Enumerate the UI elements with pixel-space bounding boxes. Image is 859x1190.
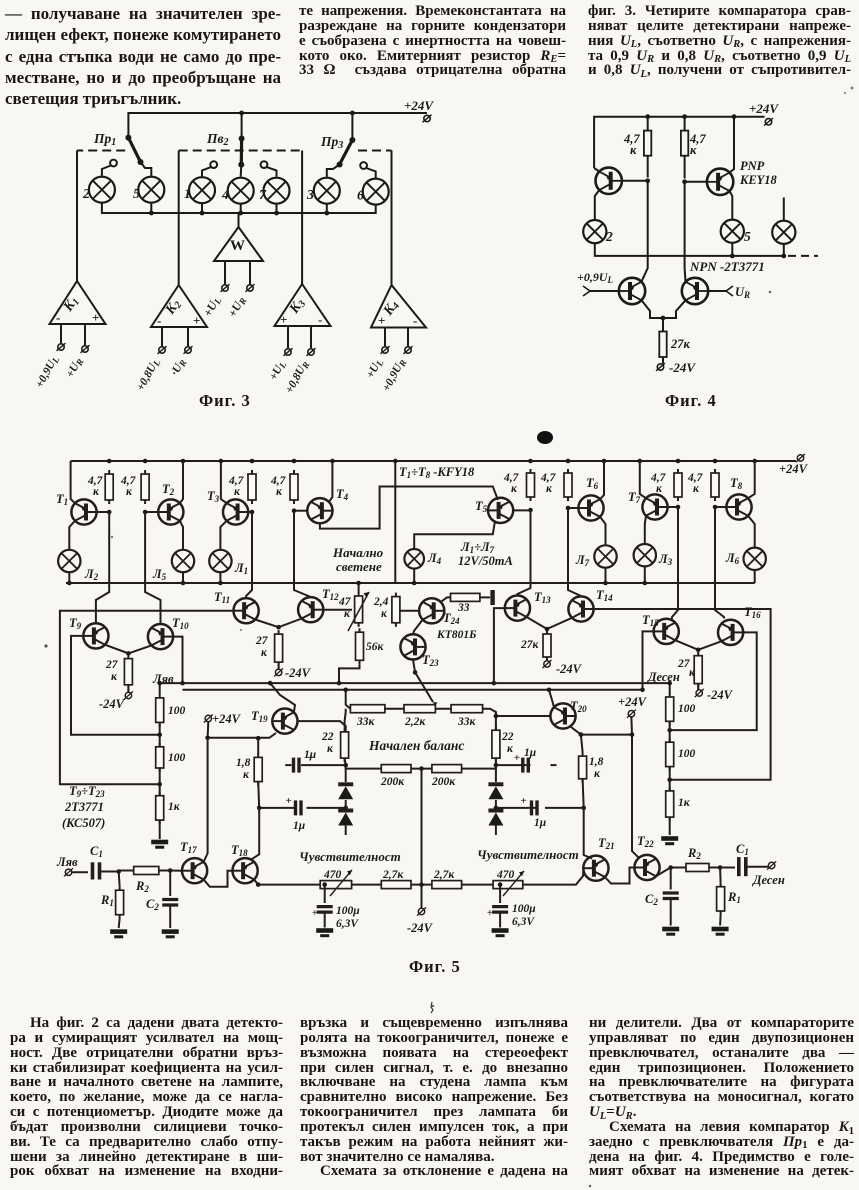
- T2 base wire: [145, 511, 158, 513]
- top column 1 (large lead text): [5, 3, 281, 109]
- node lamp3/bus: [324, 211, 329, 216]
- transistor T5: [488, 498, 513, 523]
- switch Pr3: [327, 137, 356, 177]
- lamp bottom bus: [102, 203, 376, 213]
- terminal +0,9UL of K1: [57, 343, 66, 351]
- resistor 100 right b: [666, 738, 674, 770]
- T3 base wire: [248, 511, 252, 513]
- resistor 4,7k (R of T7): [674, 469, 682, 501]
- node: rail junction to Pr3: [350, 111, 355, 116]
- transistor NPN left: [583, 278, 645, 304]
- wire to -24V: [127, 685, 129, 692]
- wire +24V down: [630, 717, 633, 734]
- emitter join wires: [642, 300, 686, 318]
- +24V terminal: [764, 118, 773, 126]
- lamp 5: [138, 177, 164, 203]
- comparator K4: [371, 285, 426, 346]
- wire R8 column to T16: [715, 507, 724, 619]
- transistor NPN right: [682, 278, 750, 304]
- T24 emitter to T23: [413, 620, 423, 635]
- lamp L6: [744, 548, 766, 570]
- pot 470 left wiper: [330, 870, 352, 896]
- wire lamp1 to bus: [201, 203, 203, 213]
- wire to ground: [669, 817, 671, 835]
- pot 47k arrow: [348, 592, 369, 631]
- NO contact above lamp 6: [360, 162, 376, 179]
- dashed select line group 2: [179, 150, 302, 152]
- wire right 200k: [462, 765, 496, 769]
- resistor 4,7k left: [623, 117, 651, 178]
- ground 100u right: [492, 928, 509, 937]
- -24V terminal: [543, 660, 552, 668]
- lamp 5: [721, 220, 744, 243]
- node lamp5/bus: [149, 211, 154, 216]
- wire 1,8k bottom: [258, 782, 259, 808]
- resistor 1k left: [156, 792, 164, 824]
- lamp 2: [89, 177, 115, 203]
- resistor 1k right: [666, 787, 674, 821]
- pot 47k: [355, 592, 363, 627]
- resistor R1 input: [116, 886, 124, 919]
- lamp L7: [594, 545, 616, 567]
- T3 collector wire: [220, 521, 226, 550]
- wire stub above right lamp: [783, 198, 785, 221]
- node emitter join: [661, 316, 666, 321]
- T1 emitter wire: [71, 461, 75, 503]
- wire R1 column to NPN left collector: [642, 181, 648, 282]
- resistor 22k right: [492, 726, 500, 762]
- wire 1,8k top: [581, 735, 583, 753]
- resistor R2 input: [134, 867, 159, 875]
- lamp L4: [404, 549, 424, 569]
- resistor 33k right: [451, 705, 483, 713]
- T7 base wire: [668, 506, 678, 508]
- wire 22k left bottom: [345, 758, 346, 765]
- lamp 1: [189, 177, 215, 203]
- wire select line to K2: [178, 151, 180, 286]
- pot 470 right: [493, 881, 523, 889]
- wire 1,8k left top: [257, 738, 259, 754]
- terminal +UL of K3: [284, 348, 293, 356]
- T4 base wire: [294, 510, 307, 512]
- lamp 7: [264, 178, 290, 204]
- wire to -24V: [278, 662, 280, 669]
- capacitor C1 output: [720, 867, 735, 869]
- -24V terminal: [124, 691, 133, 699]
- +24V terminal: [796, 454, 805, 462]
- wire L6 to bus: [754, 570, 756, 583]
- T12 base wire: [323, 609, 352, 611]
- ground R1 output: [712, 927, 729, 936]
- wire 22k right bottom: [495, 758, 497, 765]
- capacitor C1 input: [93, 862, 100, 879]
- T18 emitter wire: [254, 880, 258, 885]
- wire R4 column to T12: [294, 511, 311, 597]
- wire 33k-2,2k: [385, 708, 404, 710]
- resistor 2,4k: [392, 593, 400, 627]
- lamp (right, unnumbered): [772, 221, 795, 244]
- resistor 100 left b: [156, 743, 164, 772]
- wire right balance column: [483, 709, 496, 731]
- wire +24V down: [207, 722, 210, 738]
- wire R2 out: [671, 867, 686, 869]
- lower bus dashed continuation: [788, 255, 818, 257]
- node lamp5/bus: [730, 254, 735, 259]
- resistor 27k (T15/T16): [694, 652, 702, 688]
- T8 emitter wire: [748, 461, 755, 498]
- resistor 1,8k left: [254, 753, 262, 785]
- ink blob: [537, 431, 553, 444]
- T10 base wire to left bus: [173, 637, 182, 684]
- T2 collector wire: [180, 521, 183, 550]
- wire R1 top: [118, 872, 121, 887]
- figure 3 schematic: [30, 95, 460, 415]
- wire select line to K1: [76, 151, 78, 282]
- resistor R2 output: [686, 864, 709, 872]
- T24 base wire: [400, 610, 419, 612]
- resistor 4,7k (R of T3): [248, 470, 256, 504]
- top column 2: [299, 4, 566, 78]
- wire T17 collector column: [204, 738, 208, 862]
- capacitor 1u left bottom: [307, 807, 346, 809]
- left divider node1: [157, 733, 162, 738]
- T16 base feedback wire: [670, 632, 757, 730]
- T5 base wire: [513, 509, 530, 511]
- terminal +0,8UL of K2: [158, 346, 167, 354]
- amplifier W: [214, 213, 263, 284]
- capacitor C2 output: [670, 868, 672, 890]
- node lamp7/bus: [274, 211, 279, 216]
- dashed select line group 1: [77, 151, 125, 282]
- transistor T19: [272, 709, 297, 734]
- signal bus B: [183, 689, 643, 691]
- terminal +UL of K4: [381, 346, 390, 354]
- wire T18 collector: [251, 808, 259, 860]
- T8 base wire: [715, 506, 726, 508]
- ground C2 output: [662, 927, 679, 936]
- transistor T10: [148, 624, 173, 649]
- resistor 4,7k (R of T2): [141, 470, 149, 504]
- wire R1 column to T9: [96, 512, 109, 623]
- resistor 200k right: [432, 765, 462, 773]
- wire lamp5 to bus: [731, 243, 733, 256]
- diode D3: [495, 765, 497, 782]
- transistor T9: [83, 623, 108, 648]
- node rail/R2: [682, 114, 687, 119]
- T6 collector wire: [600, 517, 606, 546]
- dashed select line group 3: [358, 150, 392, 152]
- wire R1 out ground: [719, 915, 722, 926]
- resistor 200k left: [381, 765, 411, 773]
- terminal +UR of W: [246, 284, 255, 292]
- wire left 200k: [346, 765, 382, 769]
- wire lamp3 to bus: [326, 204, 328, 213]
- T6 base wire: [568, 507, 578, 509]
- T11 base feedback wire: [60, 611, 234, 785]
- node right lamp/bus: [781, 254, 786, 259]
- wire 100u ground: [324, 912, 326, 927]
- wire 1,8k bottom: [583, 779, 584, 808]
- diode D4: [494, 806, 499, 811]
- resistor 27k (T9/T10): [124, 655, 132, 689]
- transistor T24: [419, 598, 444, 623]
- pot 2,2k wiper arrow: [433, 702, 438, 706]
- transistor T11: [234, 598, 259, 623]
- input terminal: [64, 868, 73, 876]
- wire R3 column to T11: [246, 512, 252, 598]
- figure 5 schematic: [30, 425, 840, 955]
- right divider top: [669, 683, 671, 694]
- diode D1: [345, 765, 347, 782]
- T13/T14 emitter join: [526, 617, 547, 629]
- diode D4 stub: [495, 826, 497, 836]
- wire R1 ground: [118, 919, 121, 928]
- wire R1 out top: [719, 868, 722, 883]
- wire node2 to T17: [170, 870, 182, 872]
- wire input to C1: [72, 871, 88, 873]
- transistor T20: [550, 703, 575, 728]
- transistor T21: [583, 856, 608, 881]
- T20 emitter wire: [549, 690, 554, 707]
- T2 emitter wire: [180, 461, 183, 503]
- bottom column 3: [589, 1016, 854, 1179]
- comparator K2: [151, 285, 207, 346]
- -24V terminal: [274, 668, 283, 676]
- resistor 4,7k (R of T8): [711, 469, 719, 501]
- capacitor 100u left: [324, 885, 326, 903]
- left divider node2: [157, 782, 162, 787]
- wire select line to K4: [391, 151, 393, 286]
- transistor PNP right (KEY18): [682, 117, 734, 220]
- wire L1 to bus: [219, 572, 221, 583]
- pot 470 left: [320, 881, 351, 889]
- ground R1: [110, 929, 127, 938]
- resistor 4,7k (R of T1): [105, 470, 113, 504]
- transistor T7: [642, 494, 667, 519]
- wire R6 column to T14: [568, 508, 581, 596]
- wire 100u ground: [499, 912, 501, 927]
- wire rail to Pr2 pivot: [241, 113, 243, 139]
- terminal +0,9UR of K4: [404, 346, 413, 354]
- terminal -UR of K2: [184, 346, 193, 354]
- terminal +0,8UR of K3: [307, 348, 316, 356]
- sensitivity bus: [258, 871, 583, 885]
- T11/T12 emitter join: [255, 620, 279, 628]
- pot 2,2k: [404, 705, 435, 713]
- wire R2 column to NPN right collector: [684, 182, 687, 282]
- signal bus A: [160, 682, 670, 684]
- wire to T19 collector: [208, 733, 276, 738]
- capacitor 100u right: [499, 885, 501, 903]
- wire C1 out to terminal: [746, 866, 768, 868]
- wire 56k bottom: [339, 664, 360, 683]
- wire L3 to bus: [644, 566, 646, 583]
- transistor T6: [578, 495, 603, 520]
- pot 470 right wiper: [503, 871, 524, 896]
- resistor 1,8k right: [579, 752, 587, 783]
- lamp 3: [314, 178, 340, 204]
- node rail/right emitter: [732, 114, 737, 119]
- transistor T16: [718, 620, 743, 645]
- resistor 22k left: [341, 728, 349, 762]
- wire lamp5 to bus: [150, 203, 152, 213]
- T7 collector wire: [645, 516, 646, 544]
- transistor T1: [71, 499, 96, 524]
- transistor T4: [307, 498, 332, 523]
- T23 wiper wire: [415, 672, 433, 702]
- T4 collector wire: [320, 487, 498, 529]
- transistor T15: [654, 619, 679, 644]
- wire 2,2k-33k: [435, 708, 451, 710]
- transistor T12: [298, 597, 323, 622]
- NO contact above lamp 7: [261, 161, 277, 176]
- wire to -24V: [697, 684, 699, 690]
- transistor T22: [634, 855, 659, 880]
- wire R5 column to T13: [517, 510, 530, 596]
- wire L4 to bus: [413, 569, 415, 583]
- bottom column 1: [10, 1016, 283, 1179]
- wire lamp7 to bus: [276, 204, 278, 213]
- lamp L2: [58, 550, 80, 572]
- right divider node2: [667, 778, 672, 783]
- wire to -24V: [546, 657, 548, 661]
- T21 emitter to T22 base: [605, 868, 635, 884]
- switch Pr2 (closed, vertical): [238, 136, 244, 177]
- resistor 27k (T11/T12): [275, 630, 283, 666]
- wire L2 to bus: [68, 572, 70, 583]
- lamp bus: [66, 582, 755, 584]
- T13 base wire: [494, 608, 505, 683]
- transistor T3: [223, 499, 248, 524]
- ground right divider: [661, 836, 678, 845]
- resistor R1 output: [717, 883, 725, 915]
- resistor 33: [451, 593, 480, 601]
- diode D2: [343, 806, 348, 811]
- wire 22k left top: [345, 709, 346, 728]
- wire to ground: [159, 820, 161, 839]
- T6 emitter wire: [600, 461, 604, 499]
- lamp L5: [172, 550, 194, 572]
- T20 base wire: [496, 712, 551, 716]
- node -24V drop: [419, 882, 424, 887]
- T19 base wire: [298, 721, 346, 732]
- T24 collector wire: [441, 597, 451, 602]
- wire +24V to T22: [632, 735, 639, 858]
- T15/T16 emitter join: [675, 640, 698, 650]
- resistor 4,7k (R of T6): [564, 469, 572, 501]
- capacitor 1u right bottom: [496, 807, 537, 809]
- transistor T17: [182, 858, 207, 883]
- wire 200k middle: [411, 768, 432, 770]
- diode D2 stub: [345, 826, 347, 836]
- wire right lamp to bus: [783, 244, 785, 256]
- -24V terminal mid: [417, 907, 426, 915]
- node lamp4/bus: [238, 211, 243, 216]
- transistor T14: [568, 596, 593, 621]
- resistor 56k: [356, 628, 364, 664]
- lamp 2: [583, 220, 606, 243]
- top column 3: [588, 4, 851, 78]
- lamp L1: [209, 550, 231, 572]
- lower bus: [595, 243, 783, 256]
- resistor 4,7k right: [681, 117, 706, 179]
- T15 base wire: [643, 631, 654, 689]
- wire C2 output ground: [670, 899, 672, 926]
- lamp 6: [363, 179, 389, 205]
- T1 base wire: [97, 511, 110, 513]
- +24V terminal left: [204, 714, 213, 722]
- ground 100u left: [316, 928, 333, 937]
- T3 emitter wire: [221, 461, 227, 503]
- +24V supply rail: [594, 117, 764, 168]
- pot 2,7k left: [381, 881, 411, 889]
- lamp 4: [228, 178, 254, 204]
- wire -24V drop: [421, 769, 423, 908]
- +24V terminal right: [627, 710, 636, 718]
- wire node to R2: [119, 870, 134, 872]
- rail junction dots: [107, 459, 757, 464]
- T22 emitter wire: [656, 868, 671, 877]
- T4 emitter wire: [329, 461, 333, 502]
- -24V terminal: [656, 363, 665, 371]
- T9/T10 emitter join: [105, 645, 128, 654]
- ground C2: [162, 929, 179, 938]
- pot 2,7k right: [432, 881, 462, 889]
- wire rail drop to bus: [394, 461, 396, 583]
- T9 base feedback wire: [71, 636, 160, 735]
- wire R2 to node2: [159, 870, 170, 872]
- wire to T20 collector: [571, 727, 632, 735]
- wire C1 to node: [100, 871, 119, 873]
- +24V terminal: [423, 115, 432, 123]
- wire select line to K3: [301, 151, 303, 285]
- transistor T13: [505, 596, 530, 621]
- ground left divider: [151, 840, 168, 849]
- T14 base feedback wire: [594, 609, 771, 780]
- wire L5 to bus: [182, 572, 184, 583]
- comparator K3: [275, 284, 331, 348]
- resistor 100 left a: [156, 694, 164, 727]
- resistor 4,7k (R of T4): [290, 470, 298, 504]
- -24V terminal: [695, 689, 704, 697]
- resistor 27k: [659, 332, 690, 364]
- output terminal Desen: [767, 861, 776, 869]
- transistor T18: [233, 858, 258, 883]
- capacitor 1u left top: [285, 764, 291, 766]
- +24V supply rail: [71, 460, 796, 462]
- node lamp1/bus: [200, 211, 205, 216]
- node: rail junction to Pr2: [239, 111, 244, 116]
- switch Pr1: [125, 135, 151, 177]
- T17 emitter to T18 base: [204, 871, 233, 887]
- transistor PNP left: [594, 168, 650, 221]
- figure 4 schematic: [560, 95, 859, 415]
- node rail/R1: [645, 114, 650, 119]
- wire R2 column to T10: [145, 512, 160, 624]
- +24V supply rail: [128, 113, 427, 138]
- wire C2 ground: [169, 905, 171, 928]
- T23 emitter wire: [413, 660, 415, 673]
- T8 collector wire: [748, 516, 755, 548]
- wire 33 to cap: [480, 596, 490, 598]
- wire 47k top to bus: [358, 583, 360, 592]
- wire lamp4 to bus: [240, 204, 242, 213]
- T7 emitter wire: [640, 461, 646, 498]
- transistor T2: [158, 499, 183, 524]
- wire T21 collector: [584, 808, 592, 859]
- resistor 4,7k (R of T5): [527, 469, 535, 501]
- transistor T23: [400, 634, 425, 659]
